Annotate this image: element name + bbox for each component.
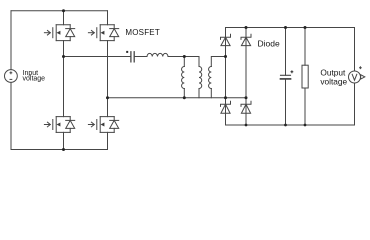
svg-text:MOSFET: MOSFET [125,28,160,37]
svg-text:Diode: Diode [258,39,280,49]
svg-text:voltage: voltage [23,76,46,83]
svg-text:voltage: voltage [320,76,347,86]
